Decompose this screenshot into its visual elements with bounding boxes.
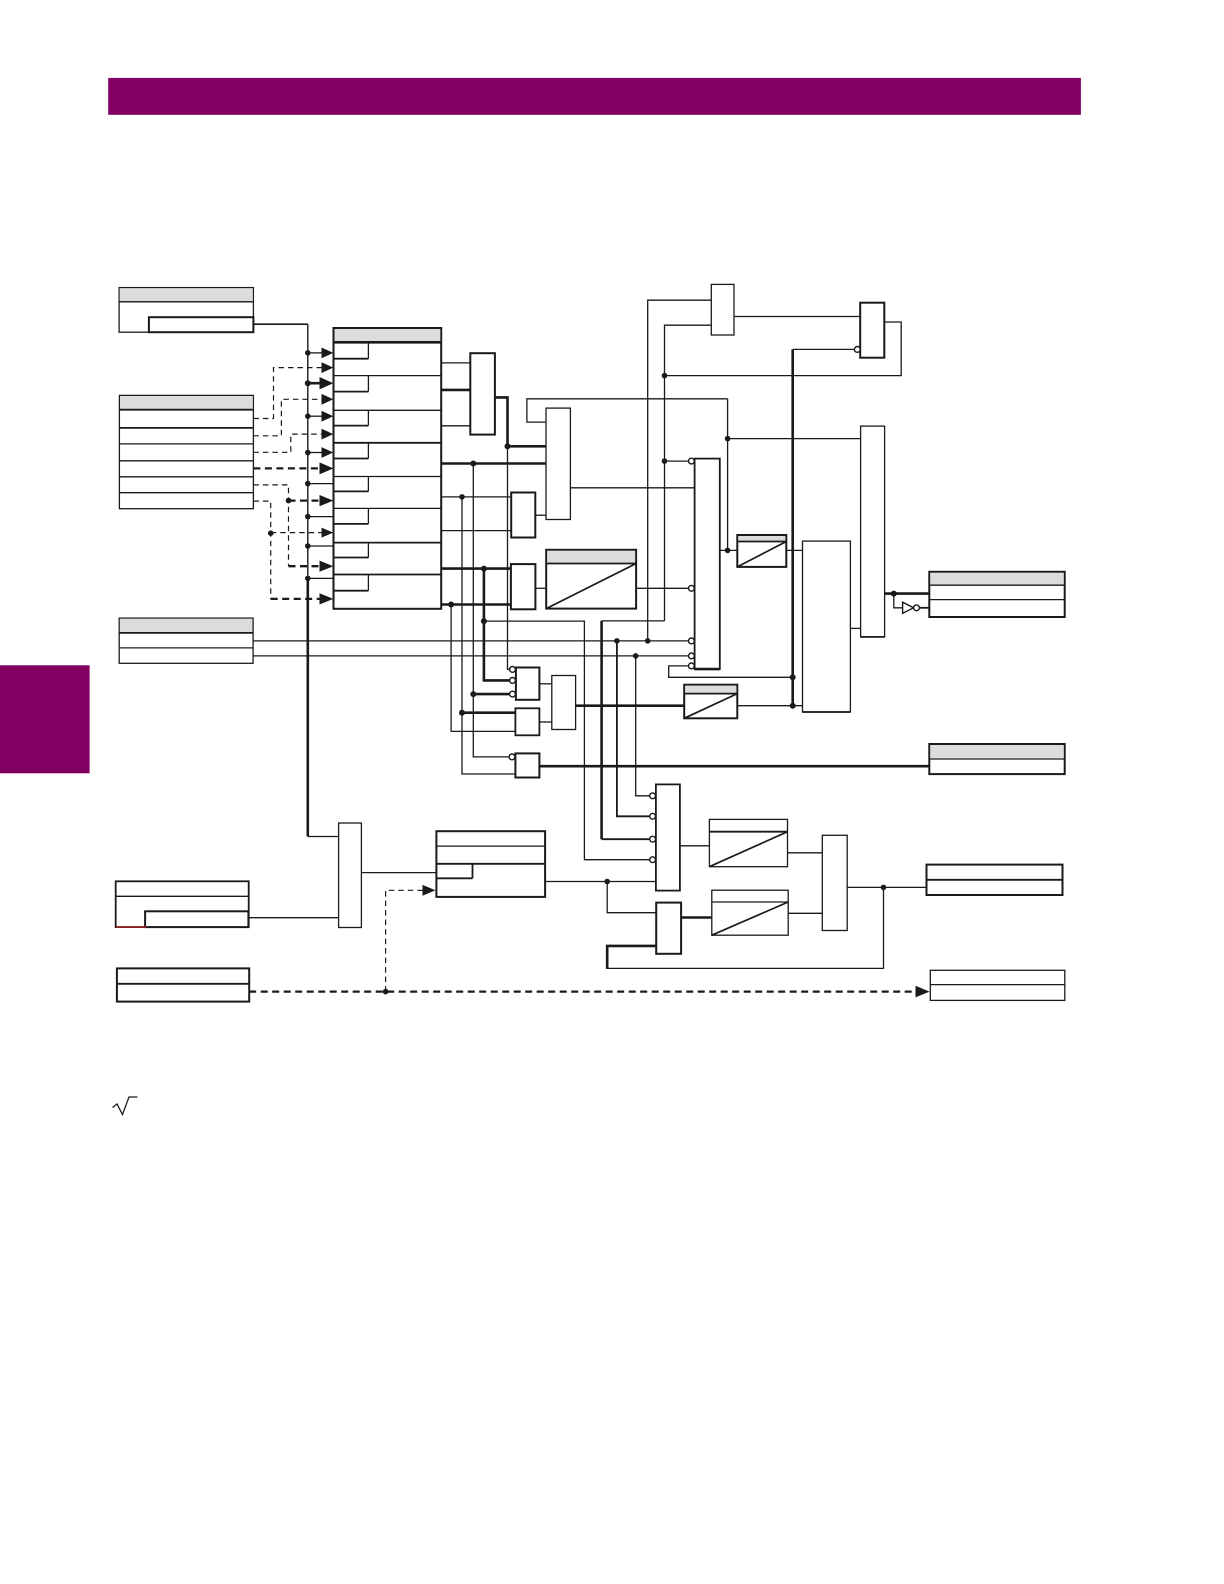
wire: G1 output to timer T2 with junction (720, 548, 738, 554)
wire: S3 row2 long line to G1 bubble b4 (253, 653, 688, 659)
wire: V1 output branch down to AND-A inverted input (508, 446, 510, 669)
wire: latch output feedback (right, down, left) (665, 322, 902, 376)
wire: riser from s5 junction down to NAND plain input with branch to G3 (459, 497, 515, 774)
wire: O2 output to operand box OB3 with feedback junction (847, 885, 926, 891)
solid row input 8 with junction (305, 576, 334, 582)
G2 bubble a2 (510, 678, 516, 684)
timer T2 (pickup/dropout) (737, 535, 786, 567)
junction on feedback riser (725, 436, 731, 442)
gate G5 (OR middle) (552, 676, 576, 730)
junction on feedback at riser (662, 373, 668, 379)
wire: S1 output to input bus (253, 323, 307, 325)
wire: branch line to AND4 bubble b4 riser (484, 621, 650, 860)
wire: block output s8 to box V2b (thick) with junction (441, 602, 511, 608)
wire: riser from S3 row1 down to AND4 bubble (617, 641, 650, 816)
input bus vertical (thick lower part) to block V-L (306, 578, 309, 836)
wire: block output s1 to V1 (441, 362, 470, 364)
wire: feedback line jog into box V3a (527, 399, 728, 422)
wire: T-top output to latch input (734, 316, 860, 318)
wire: T4 output to OR gate O2 (788, 852, 823, 854)
wire: block output s4 to box V3a (thick) with junction (441, 461, 546, 467)
wire: V2b output to timer T1 (535, 587, 546, 589)
G1 inverted input bubble b3 (689, 638, 695, 644)
wire: U-route to G1 bubble b5 (669, 666, 791, 677)
wire: G4 NAND output long line to operand box OB2 (thick) (539, 765, 929, 768)
wire: T5 output to OR gate O2 (788, 912, 822, 914)
wire: riser from s8 junction to G3 input2 (451, 605, 515, 732)
timer T5 (pickup/dropout) (712, 890, 788, 935)
wire: S3 row1 long line to G1 bubble b3 (253, 638, 688, 644)
setting box S4 (bottom left) (116, 881, 249, 927)
wire: G2 output to G5 (539, 683, 551, 685)
wire: V-L output to setting box S5 (361, 872, 436, 874)
timer T4 (pickup/dropout) (709, 819, 787, 866)
wire: feedback riser down with branch to G1 bubble b1 (662, 376, 689, 621)
red artifact line under S4 (116, 926, 146, 928)
wire: feedback riser up into T-top second input (665, 325, 712, 375)
operand box OB3 (927, 865, 1063, 895)
wire: riser from S3 row2 down to AND4 bubble (636, 656, 650, 796)
setting box S4 inner tab (145, 911, 248, 927)
solid row input 7 with junction (305, 543, 334, 549)
wire: inverter output to OB1 lower row (919, 607, 929, 609)
box V2a (511, 493, 535, 538)
dashed route S2 row2 to block row2 (253, 394, 333, 436)
setting box S5 (run block with tab) (436, 831, 545, 897)
wire: V3a output to gate G1 plain input (570, 487, 694, 489)
wire: branch to OR gate O1 input (728, 438, 861, 440)
wire: S4 output to block V-L (249, 917, 339, 919)
dashed route S2 row3 to block row3 (253, 429, 333, 453)
wire: riser from S3 row1 up to box T-top input (648, 300, 712, 641)
solid row input 2 (thick) with junction (305, 377, 334, 389)
dashed branch to block row6 (271, 528, 334, 538)
wire: S5 output to AND4 lower input with junction (545, 879, 656, 885)
latch reset bubble (854, 347, 860, 353)
inverter triangle (903, 602, 914, 613)
wire: V2a output into V3a (535, 514, 546, 516)
wire: thick branch to G3 input1 (462, 711, 515, 714)
wire: G5 output to timer T3 (thick) (576, 704, 685, 707)
OR block B2 (tall) (803, 541, 851, 712)
wire: block output s6 to box V2a (441, 530, 511, 532)
box V3a (tall run block) (546, 408, 570, 519)
input bus vertical (thin upper part) (307, 324, 309, 578)
wire: latch reset bubble line to long vertical riser (793, 348, 855, 350)
wire: OR gate O2 feedback loop to V4 lower input (thick elbow) (607, 946, 656, 969)
G1 inverted input bubble b5 (689, 663, 695, 669)
dashed route S2 row6 riser with branch (253, 501, 273, 599)
AND4 bubble b4 (650, 857, 656, 863)
G2 bubble a1 (510, 667, 516, 673)
setting box S1 (top left) (119, 288, 253, 333)
radical (square-root) footnote symbol (113, 1097, 138, 1115)
wire: G3 output to G5 (539, 721, 551, 723)
purple side tab (0, 665, 90, 773)
latch box L1 (860, 303, 884, 358)
setting box S3 (left middle) (119, 618, 253, 663)
gate G1 (tall AND with inverted inputs) (695, 459, 720, 669)
gate G3 (AND-B) (515, 708, 539, 735)
wire: V4 output to timer T5 (thick) (681, 916, 712, 919)
wire: timer T1 output to gate G1 inverted input (636, 587, 689, 589)
wire: block output s3 to V1 (441, 425, 470, 427)
solid row input 5 with junction (305, 481, 334, 487)
solid row input 6 with junction (305, 514, 334, 520)
dashed branch to block row5 (thick) (289, 495, 334, 506)
wire: AND4 output to timer T4 (680, 845, 710, 847)
solid row input 4 with junction (305, 447, 333, 458)
setting box S2 (left, six rows) (119, 395, 253, 508)
operand box OB1 (929, 572, 1064, 617)
long reset riser (thick) (791, 349, 794, 705)
OR gate O1 (tall) (861, 426, 885, 637)
operand box OB2 (929, 744, 1064, 774)
G1 inverted input bubble b4 (689, 653, 695, 659)
dashed route S2 row4 straight to block row4 (thick) (253, 462, 333, 474)
AND4 gate (lower, four inverted inputs) (656, 784, 680, 890)
OR gate O2 (822, 835, 847, 930)
wire: timer T2 output to OR block B2 (786, 549, 802, 551)
AND4 bubble b2 (650, 813, 656, 819)
box T-top (transient detector) (711, 284, 734, 335)
dashed riser: up to S5 dashed input (386, 885, 436, 992)
junction: reset riser at timer T3 output (790, 703, 796, 709)
junction: reset riser to G1 bubble b5 U-route (790, 674, 796, 680)
gate G2 (AND-A with inverted inputs) (516, 668, 540, 700)
solid row input 1 with junction (305, 348, 333, 359)
row tabs inside main block (334, 342, 369, 590)
S5 inner tab (436, 864, 472, 879)
G1 inverted input bubble b1 (689, 458, 695, 464)
wire: block output s5 to box V2a with junction (441, 494, 511, 500)
wire: timer T3 output to OR block B2 input (737, 705, 802, 707)
box V2b (511, 564, 536, 609)
wire: riser from s4 junction down with branches (470, 464, 509, 757)
AND4 bubble b3 (650, 836, 656, 842)
dashed route to block row8 (thick) (271, 593, 334, 604)
wire: V1 output with junction branch (495, 397, 546, 449)
wire: thick branch to G2 bubble a3 (473, 693, 509, 696)
AND4 bubble b1 (650, 793, 656, 799)
wire: B2 output to OR gate O1 (850, 627, 860, 629)
solid row input 3 with junction (305, 411, 333, 422)
wire: block output s7 to box V2b (thick) with junction (441, 566, 511, 572)
setting box S6 (bottom left dashed source) (117, 968, 249, 1001)
gate G4 (NAND with inverted input) (515, 753, 539, 777)
wire: O1 output to operand box OB1 (thick) with junction (885, 591, 930, 597)
box V4 (656, 903, 681, 954)
timer T1 (pickup/dropout) (546, 550, 636, 609)
G2 bubble a3 (510, 691, 516, 697)
wire: block output s2 to V1 (thick) (441, 389, 470, 392)
setting box S1 inner tab (149, 317, 254, 332)
G4 inverted input bubble (509, 754, 515, 760)
main distance element block (8 input rows) (334, 328, 442, 609)
dashed route to block row7 (thick) (289, 561, 334, 572)
wire: riser from S5 output into V4 upper input (607, 882, 656, 913)
purple page header bar (108, 78, 1081, 115)
operand box OB4 (930, 970, 1065, 1000)
timer T3 (pickup/dropout) (684, 685, 737, 719)
wire: jog down to inverter (894, 594, 903, 608)
dashed wire: S6 to operand box OB4 (thick dashed) with junction (249, 986, 929, 998)
dashed route S2 row1 to block row1 (253, 362, 333, 418)
dashed route S2 row5 riser with branch (253, 485, 291, 566)
wire: thick riser from s7 junction to G2 bubble a2 with branch (481, 569, 510, 681)
comparator gate V1 (470, 353, 495, 434)
wire: feedback loop bottom run (606, 887, 883, 968)
G1 inverted input bubble b2 (689, 585, 695, 591)
wire: feedback elbow down to AND4 bubble b3 (thick drop) (602, 620, 665, 622)
inverter bubble (914, 605, 920, 611)
wire: feedback riser down right side (727, 399, 729, 551)
block V-L (tall left block above AND4 path) (339, 823, 362, 928)
